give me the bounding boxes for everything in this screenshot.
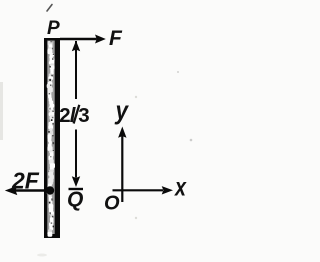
scan speckle: [135, 217, 137, 219]
svg-text:2F: 2F: [11, 168, 40, 194]
scan speckle: [177, 71, 179, 73]
rod PQ (vertical bar with mottled interior): [44, 38, 60, 238]
svg-text:3: 3: [78, 104, 89, 127]
scan speckle bottom: [37, 254, 47, 257]
svg-text:y: y: [114, 95, 130, 125]
svg-text:P: P: [47, 18, 60, 39]
application point dot on rod: [46, 186, 54, 194]
scan speckle: [135, 96, 137, 98]
scan speckle top tick: [47, 5, 52, 12]
svg-text:x: x: [173, 172, 187, 202]
tick at Q on dimension line: [69, 188, 84, 190]
scan speckle: [190, 139, 193, 142]
label 2l/3: slash: [74, 105, 80, 124]
svg-text:O: O: [104, 193, 120, 215]
svg-text:F: F: [109, 27, 123, 50]
svg-text:Q: Q: [67, 188, 83, 211]
force 2F arrow: [5, 186, 50, 195]
dimension line 2l/3 (double arrow): [72, 41, 80, 188]
x axis: [113, 186, 174, 194]
force F arrow: [60, 35, 106, 44]
scan smudge left edge: [0, 82, 3, 140]
y axis: [118, 127, 126, 203]
